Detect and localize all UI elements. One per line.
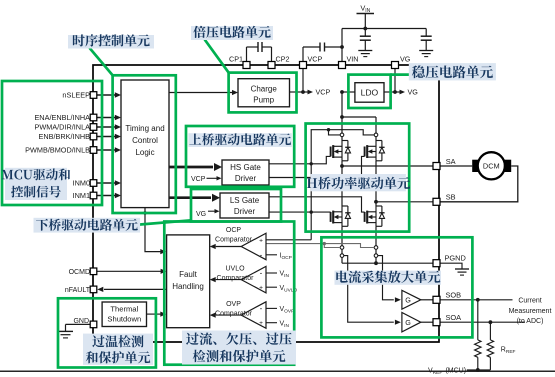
wire SA to terminal: [342, 165, 433, 167]
svg-text:VCP: VCP: [308, 54, 323, 63]
block U3 LDO: [355, 83, 384, 103]
svg-text:OCMD: OCMD: [69, 269, 90, 276]
terminal SA: [433, 163, 440, 170]
pin PWMB/BMOD/INLB: [97, 149, 116, 151]
wire gate bus vertical down to OCP sense: [310, 164, 312, 240]
svg-text:GND: GND: [73, 318, 89, 325]
svg-text:INM1: INM1: [73, 191, 90, 200]
green frame H-bridge: [306, 124, 410, 232]
svg-text:VCP: VCP: [191, 176, 206, 183]
comparator U7 OCP: [241, 233, 266, 260]
wire SB down to Q4 drain: [375, 202, 377, 206]
label 过温检测和保护单元 (thermal protection unit): [83, 334, 153, 365]
pin ENA/ENBL/INHA: [97, 117, 116, 119]
net VIN ref (OVP+): [266, 322, 277, 324]
svg-text:Comparator: Comparator: [215, 237, 253, 244]
wire UVLO out to fault: [216, 279, 242, 281]
wire PGND bus: [342, 262, 433, 264]
svg-text:Current: Current: [518, 298, 541, 305]
svg-text:PWMB/BMOD/INLB: PWMB/BMOD/INLB: [25, 146, 90, 155]
label MCU驱动和控制信号 (MCU control signals): [5, 168, 67, 200]
terminal PGND: [433, 260, 440, 267]
green frame timing logic: [113, 75, 176, 213]
green pointer LS driver label: [140, 220, 191, 224]
capacitor C3 (VIN bulk cap): [364, 29, 366, 37]
svg-text:HS Gate: HS Gate: [230, 163, 261, 172]
label 稳压电路单元 (LDO regulator unit): [409, 63, 496, 80]
svg-text:SOA: SOA: [446, 313, 462, 322]
green frame charge pump: [229, 73, 297, 113]
bottom page rule: [0, 370, 555, 372]
wire HS gate bus: [311, 130, 374, 164]
wire Q4 source to sense: [375, 226, 377, 246]
svg-text:Driver: Driver: [234, 207, 256, 216]
svg-text:Charge: Charge: [251, 85, 278, 94]
transistor Q2 (HS-B): [366, 145, 368, 158]
svg-text:LS Gate: LS Gate: [230, 196, 260, 205]
green pointer LDO label: [391, 73, 409, 76]
wire OCP out to fault: [216, 246, 242, 248]
green frame LDO: [348, 75, 390, 108]
op-amp G2 (SOA sense amp): [402, 313, 421, 332]
wire Q2 source to SB node: [375, 161, 377, 202]
pin GND: [66, 323, 91, 325]
wire drain OUT-B high: [375, 117, 377, 133]
svg-text:SA: SA: [446, 157, 456, 166]
terminal VIN: [339, 62, 346, 69]
svg-text:OCP: OCP: [226, 227, 242, 234]
svg-text:Logic: Logic: [135, 148, 154, 157]
svg-text:LDO: LDO: [361, 87, 379, 97]
green frame MCU input signals: [2, 81, 102, 205]
label 倍压电路单元 (charge pump unit): [191, 26, 273, 40]
wire SB to terminal: [376, 201, 433, 203]
wire cap to CP2: [262, 46, 272, 48]
svg-text:OVP: OVP: [226, 301, 241, 308]
transistor Q4 (LS-B): [366, 211, 368, 224]
block U4 HS Gate Driver: [222, 160, 269, 185]
svg-text:VG: VG: [400, 54, 411, 63]
svg-text:Fault: Fault: [179, 270, 198, 279]
svg-text:Shutdown: Shutdown: [107, 315, 141, 324]
pin PWMA/DIR/INLA: [97, 126, 116, 128]
motor DCM: [440, 165, 472, 167]
svg-text:Comparator: Comparator: [217, 275, 255, 282]
svg-text:ENA/ENBL/INHA: ENA/ENBL/INHA: [34, 113, 90, 122]
wire LDO output to VG node: [384, 91, 395, 93]
wire charge pump output to VCP node: [290, 91, 304, 93]
wire cap C2 to VIN line: [325, 46, 343, 48]
svg-text:ENB/BRK/INHB: ENB/BRK/INHB: [39, 132, 91, 141]
svg-text:Comparator: Comparator: [215, 311, 253, 318]
green frame LS driver: [191, 189, 281, 222]
block U10 Thermal Shutdown: [102, 302, 146, 327]
wire VIN rail across H-bridge: [342, 116, 376, 118]
wire CP1 up to flying cap: [246, 47, 248, 62]
green frame protection comparators: [164, 222, 294, 365]
svg-text:CP2: CP2: [276, 54, 290, 63]
wire VCP pin down to charge pump output node: [302, 68, 304, 92]
green pointer timing label: [90, 49, 113, 76]
capacitor C1 (CP1-CP2 flying cap): [257, 42, 259, 52]
svg-text:PGND: PGND: [445, 254, 466, 263]
svg-text:-: -: [260, 304, 263, 313]
label 时序控制单元 (timing control unit): [68, 35, 154, 49]
wire HS driver out to Q1 gate: [269, 156, 331, 163]
svg-text:-: -: [260, 269, 263, 278]
wire VIN to LDO input: [342, 91, 355, 93]
svg-text:+: +: [259, 320, 263, 327]
svg-text:VCP: VCP: [316, 88, 331, 97]
transistor Q3 (LS-A): [332, 211, 334, 224]
svg-text:VIN: VIN: [347, 54, 359, 63]
wire Q3 sense to amp G2 (SOA): [344, 256, 394, 323]
label H桥功率驱动单元 (H-bridge power unit): [311, 174, 406, 191]
label 电流采集放大单元 (current sense amp unit): [335, 271, 442, 285]
wire OVP out to fault: [216, 314, 242, 316]
wire to OCP comparator + input: [265, 239, 311, 241]
wire logic to charge pump: [169, 92, 233, 94]
svg-text:CP1: CP1: [229, 54, 243, 63]
capacitor C4 (VG cap): [425, 29, 427, 37]
svg-text:SOB: SOB: [446, 290, 462, 299]
green pointer charge pump label: [205, 40, 229, 73]
svg-text:(MCU): (MCU): [444, 367, 467, 374]
wire HS driver out to Q2 gate: [269, 156, 365, 177]
green frame current sense amps: [321, 237, 472, 337]
ground (PGND): [440, 263, 462, 269]
pin nFAULT: [104, 288, 167, 290]
wire motor return to SB: [440, 166, 518, 202]
wire drain OUT-A high: [341, 117, 343, 133]
wire Q3 source to sense: [341, 226, 343, 246]
svg-text:Pump: Pump: [253, 96, 274, 105]
wire G1 out to SOB: [421, 299, 433, 301]
wire VCP up to cap C2: [302, 47, 304, 62]
svg-text:Driver: Driver: [235, 174, 257, 183]
resistor R2 (Rref SOA): [489, 322, 491, 340]
svg-text:Thermal: Thermal: [110, 305, 138, 314]
svg-text:G: G: [405, 296, 411, 305]
capacitor C2 (VCP-VIN): [319, 43, 321, 52]
comparator U8 UVLO: [241, 266, 266, 293]
chip outline (device boundary): [93, 65, 439, 342]
green frame thermal protection: [58, 298, 156, 367]
net Vuvlo ref: [266, 286, 277, 288]
svg-text:Timing and: Timing and: [125, 124, 164, 133]
svg-text:Handling: Handling: [172, 282, 204, 291]
net arrow VG out: [395, 91, 401, 93]
ground (VG cap): [419, 50, 433, 52]
svg-text:VG: VG: [196, 211, 206, 218]
wire OCP current sense line (grey): [265, 243, 325, 245]
block U2 Charge Pump: [238, 79, 290, 107]
svg-text:SB: SB: [446, 193, 456, 202]
green frame HS driver: [186, 126, 294, 187]
comparator U9 OVP: [241, 302, 266, 329]
terminal SOB + current measure line: [440, 299, 513, 301]
wire SA down to Q3 drain: [341, 166, 343, 206]
net Iocp ref: [266, 254, 277, 256]
wire logic to LS driver (bus): [169, 196, 211, 199]
resistor R1 (Rref SOB): [477, 300, 479, 340]
transistor Q1 (HS-A): [332, 145, 334, 158]
block U5 LS Gate Driver: [220, 193, 269, 218]
svg-text:UVLO: UVLO: [225, 265, 245, 272]
wire LS gate bus / LS driver out to Q4 gate: [269, 197, 365, 212]
pin ENB/BRK/INHB: [97, 136, 116, 138]
node SA: [341, 161, 343, 166]
terminal SB: [433, 198, 440, 205]
net VIN ref (UVLO-): [266, 272, 277, 274]
pin nSLEEP: [97, 94, 116, 96]
svg-text:INM0: INM0: [73, 179, 90, 188]
wire LS driver out to Q3 gate: [269, 211, 331, 213]
wire VIN rail down to VIN pin: [341, 29, 343, 66]
terminal VCP: [300, 62, 307, 69]
pin OCMD: [97, 270, 162, 272]
svg-text:+: +: [259, 237, 263, 244]
terminal CP2: [268, 62, 275, 69]
svg-text:(to ADC): (to ADC): [517, 318, 544, 325]
net Vref (MCU): [467, 369, 491, 371]
net arrow VCP out: [303, 91, 309, 93]
svg-text:Measurement: Measurement: [509, 308, 552, 315]
svg-text:G: G: [405, 318, 411, 327]
label 上桥驱动电路单元 (HS driver unit): [188, 133, 291, 147]
svg-text:PWMA/DIR/INLA: PWMA/DIR/INLA: [34, 123, 90, 132]
wire VIN down to H-bridge rail: [341, 92, 343, 117]
wire Q4 sense to amp G1 (SOB): [378, 256, 394, 300]
wire logic to HS driver (bus): [169, 166, 213, 169]
wire logic to fault handling: [145, 208, 161, 252]
logic block U1 Timing and Control Logic: [121, 80, 169, 208]
label 下桥驱动电路单元 (LS driver unit): [34, 218, 141, 233]
terminal CP1: [243, 62, 250, 69]
svg-text:Control: Control: [132, 136, 158, 145]
pin INM0: [97, 182, 116, 184]
terminal VG: [392, 62, 399, 69]
ground (VIN cap): [358, 50, 372, 52]
ground (GND pin): [58, 330, 73, 332]
svg-text:-: -: [260, 250, 263, 259]
svg-text:DCM: DCM: [483, 162, 500, 171]
wire VIN top rail: [342, 28, 426, 30]
wire G2 out to SOA: [421, 321, 433, 323]
net Vovp ref: [266, 307, 277, 309]
wire VG pin down to LDO output node: [394, 68, 396, 92]
svg-text:VG: VG: [408, 88, 419, 97]
label 过流欠压过压检测和保护单元 (OC/UV/OV protection unit): [182, 331, 296, 365]
pin INM1: [97, 195, 116, 197]
block U6 Fault Handling: [167, 235, 210, 328]
svg-text:+: +: [259, 285, 263, 292]
wire thermal to fault: [147, 313, 162, 315]
svg-text:nSLEEP: nSLEEP: [62, 91, 90, 100]
svg-text:nFAULT: nFAULT: [65, 287, 91, 294]
op-amp G1 (SOB sense amp): [402, 290, 421, 309]
terminal SOA + current measure line: [440, 321, 525, 323]
